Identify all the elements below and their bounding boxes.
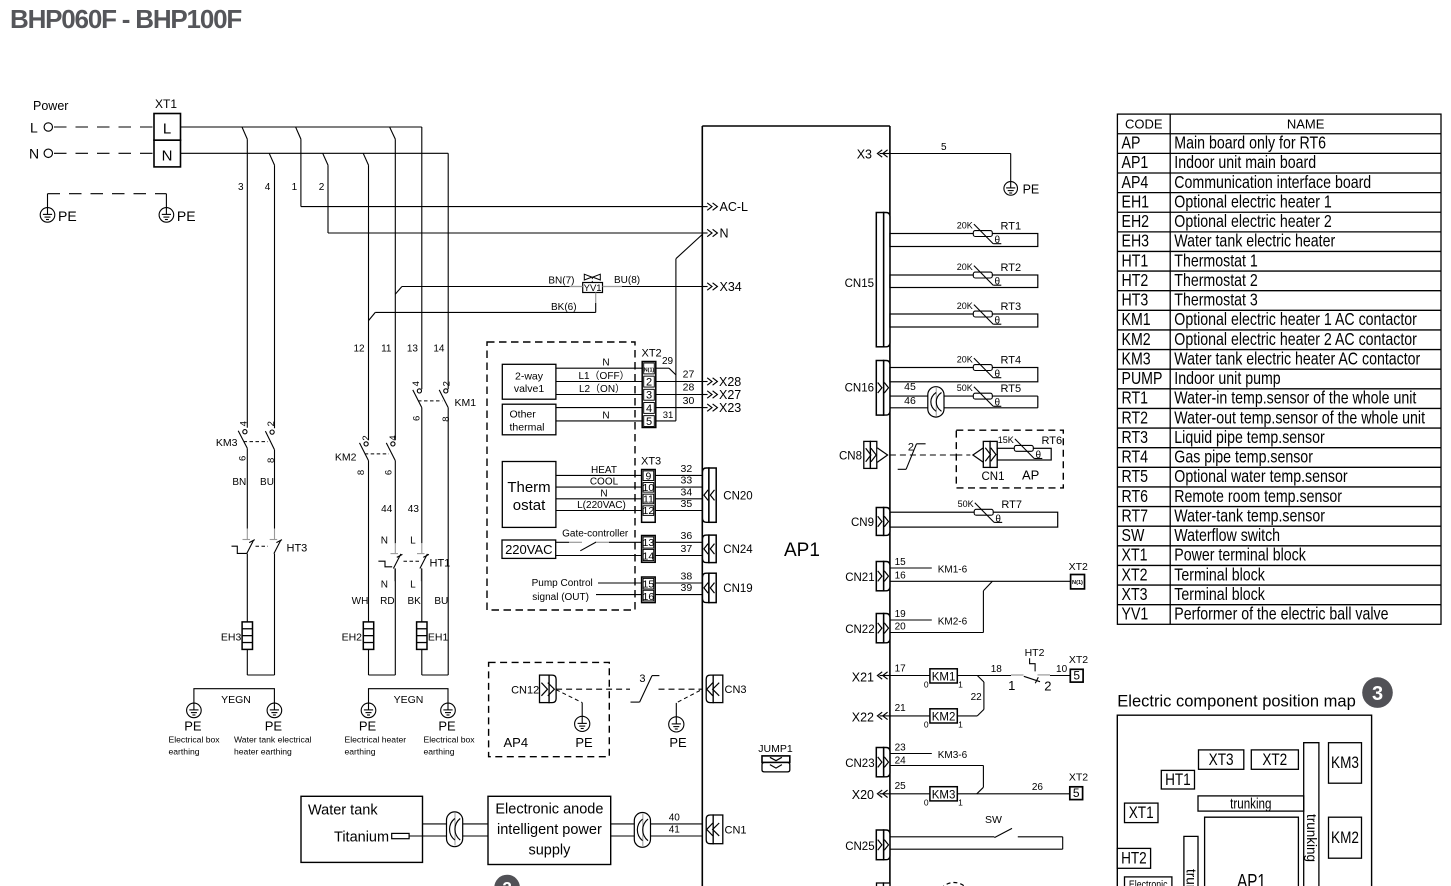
wire 12 below KM2 [368, 461, 370, 622]
arrow X27 [702, 391, 717, 398]
svg-text:XT3: XT3 [1121, 584, 1147, 604]
svg-text:13: 13 [643, 537, 655, 549]
svg-text:Water tank: Water tank [308, 802, 378, 818]
svg-text:N: N [381, 535, 388, 546]
marker circle 3 [1362, 677, 1393, 708]
map box trunking horizontal [1198, 796, 1304, 811]
table CODE/NAME frame and header [1117, 114, 1441, 624]
svg-text:RT2: RT2 [1121, 408, 1148, 428]
svg-text:36: 36 [681, 530, 693, 542]
svg-text:PE: PE [265, 719, 283, 734]
svg-text:35: 35 [681, 498, 693, 510]
svg-text:26: 26 [1032, 782, 1044, 793]
map box Electronic [1125, 877, 1172, 886]
svg-text:N: N [600, 488, 607, 499]
box Thermostat [502, 462, 556, 528]
wire dashed L to XT1 [54, 126, 154, 128]
svg-text:HT2: HT2 [1121, 849, 1147, 868]
svg-text:ostat: ostat [513, 497, 546, 514]
wire 25 [890, 793, 930, 795]
switch disconnect 3 [631, 673, 660, 702]
svg-text:5: 5 [646, 416, 652, 428]
svg-text:AP4: AP4 [1121, 172, 1148, 192]
wire 20 [890, 632, 984, 634]
svg-text:RT4: RT4 [1001, 354, 1022, 366]
svg-text:L: L [163, 121, 171, 138]
svg-text:16: 16 [895, 570, 907, 581]
thermistor RT4 [957, 354, 1021, 380]
svg-text:11: 11 [381, 344, 392, 355]
svg-text:Indoor unit pump: Indoor unit pump [1174, 369, 1280, 389]
svg-text:SW: SW [985, 814, 1002, 826]
wire 16 to XT2 [890, 580, 1071, 582]
svg-text:BK: BK [408, 596, 422, 607]
arrow X20 [877, 790, 890, 797]
svg-text:EH2: EH2 [342, 632, 363, 644]
wire N to XT2 5 [656, 420, 676, 422]
svg-text:WH: WH [352, 596, 369, 607]
svg-text:Water-in temp.sensor of the wh: Water-in temp.sensor of the whole unit [1174, 388, 1416, 408]
svg-text:KM1: KM1 [455, 397, 477, 409]
wire 11 below HT1 [394, 569, 396, 676]
map box KM3 [1329, 743, 1362, 784]
wire EH2 loop [368, 649, 370, 675]
svg-text:40: 40 [669, 812, 681, 823]
svg-text:AC-L: AC-L [720, 200, 749, 214]
connector CN3 [706, 675, 746, 703]
svg-text:X23: X23 [719, 401, 741, 415]
wire other thermal N [556, 420, 642, 422]
svg-text:HT3: HT3 [287, 543, 308, 555]
wire 33 [655, 486, 703, 488]
connector CN1 AP [956, 441, 1004, 482]
wire 11 [394, 139, 396, 440]
coil KM1 [930, 669, 957, 683]
svg-text:44: 44 [381, 504, 393, 515]
svg-text:2: 2 [319, 182, 325, 193]
svg-text:Pump Control: Pump Control [532, 578, 593, 589]
map box trunking vertical 2 [1184, 836, 1198, 886]
wire 17 [890, 675, 930, 677]
svg-text:Thermostat 2: Thermostat 2 [1174, 270, 1257, 290]
svg-text:HT1: HT1 [1165, 771, 1191, 790]
svg-text:KM2: KM2 [1121, 329, 1150, 349]
svg-text:RT5: RT5 [1121, 467, 1148, 487]
svg-text:2: 2 [646, 376, 652, 388]
svg-text:PE: PE [177, 208, 196, 224]
svg-text:RT2: RT2 [1001, 262, 1022, 274]
svg-text:RT7: RT7 [1001, 499, 1022, 511]
wire 2 [327, 165, 329, 233]
svg-text:CN1: CN1 [725, 824, 747, 836]
svg-text:Indoor unit main board: Indoor unit main board [1174, 153, 1316, 173]
wire 15 KM1-6 [890, 567, 932, 569]
svg-text:14: 14 [643, 551, 655, 563]
svg-text:L: L [410, 535, 416, 546]
svg-text:Optional water temp.sensor: Optional water temp.sensor [1174, 467, 1348, 487]
svg-text:XT2: XT2 [642, 348, 662, 360]
svg-text:YEGN: YEGN [221, 694, 251, 706]
arrow N [702, 229, 717, 236]
wire 18 [957, 675, 1011, 677]
wire 14 below KM1 [447, 408, 449, 675]
svg-text:L(220VAC): L(220VAC) [577, 500, 626, 511]
svg-text:CN9: CN9 [851, 517, 874, 529]
svg-text:CN3: CN3 [725, 684, 747, 696]
svg-text:YEGN: YEGN [394, 694, 424, 706]
svg-text:37: 37 [681, 543, 693, 555]
map box XT3 [1199, 750, 1244, 769]
svg-text:AP1: AP1 [1237, 870, 1266, 886]
svg-text:5: 5 [941, 142, 947, 153]
thermistor RT6 [998, 435, 1062, 461]
svg-text:XT3: XT3 [641, 455, 661, 467]
wire N to XT2 N1 [656, 367, 669, 369]
heater EH2 [363, 622, 373, 650]
ferrite bead RT5 [928, 387, 944, 417]
marker circle 2 [494, 875, 520, 886]
svg-text:CN23: CN23 [845, 758, 874, 770]
contactor KM1 [411, 381, 476, 422]
svg-text:Water-out temp.sensor of the w: Water-out temp.sensor of the whole unit [1174, 408, 1425, 428]
wire 37 [655, 555, 703, 557]
svg-text:EH2: EH2 [1121, 212, 1149, 232]
wire 13 below KM1 [421, 408, 423, 544]
svg-text:CN25: CN25 [845, 841, 874, 853]
wire 12 [368, 165, 370, 440]
svg-text:θ: θ [995, 398, 1001, 409]
svg-text:Liquid pipe temp.sensor: Liquid pipe temp.sensor [1174, 427, 1325, 447]
svg-text:Remote room temp.sensor: Remote room temp.sensor [1174, 486, 1342, 506]
svg-text:28: 28 [683, 382, 695, 394]
svg-text:4: 4 [388, 435, 399, 440]
svg-text:BN: BN [232, 477, 246, 488]
wire N thermostat [556, 498, 642, 500]
svg-text:1: 1 [292, 182, 298, 193]
wire 13 below HT1 [421, 569, 423, 622]
svg-text:NAME: NAME [1287, 117, 1325, 132]
wire 3 below HT3 [246, 554, 248, 622]
svg-text:Electrical box: Electrical box [169, 735, 221, 745]
thermostat HT1 [378, 543, 450, 581]
ground PE CN3 [669, 717, 684, 732]
connector CN16 [876, 361, 890, 416]
svg-text:trunking: trunking [1230, 795, 1271, 812]
wire 14 [447, 153, 449, 389]
svg-text:Water-tank temp.sensor: Water-tank temp.sensor [1174, 506, 1325, 526]
svg-text:50K: 50K [958, 499, 974, 509]
svg-text:6: 6 [411, 416, 422, 421]
ferrite bead tank [447, 812, 463, 847]
svg-text:CN16: CN16 [845, 383, 874, 395]
svg-text:2-way: 2-way [515, 370, 544, 382]
svg-text:L2（ON）: L2（ON） [579, 383, 625, 395]
svg-text:25: 25 [895, 781, 907, 792]
svg-text:KM3: KM3 [1121, 349, 1150, 369]
svg-text:2: 2 [1044, 678, 1051, 693]
svg-text:Titanium: Titanium [334, 830, 389, 846]
wire valve N [556, 367, 642, 369]
svg-text:39: 39 [681, 582, 693, 594]
svg-text:19: 19 [895, 609, 907, 620]
svg-text:Performer of the electric ball: Performer of the electric ball valve [1174, 604, 1388, 624]
wire 34 [655, 498, 703, 500]
svg-text:3: 3 [1372, 683, 1383, 705]
svg-text:43: 43 [408, 504, 420, 515]
svg-text:Waterflow switch: Waterflow switch [1174, 526, 1280, 546]
terminal block XT2 [642, 348, 662, 429]
svg-text:X34: X34 [720, 280, 742, 294]
svg-text:4: 4 [265, 182, 271, 193]
svg-text:signal (OUT): signal (OUT) [532, 592, 589, 603]
svg-text:Power: Power [33, 99, 68, 113]
svg-text:JUMP1: JUMP1 [758, 743, 793, 755]
wire 21 [890, 715, 930, 717]
heater EH1 [417, 622, 427, 650]
wire 3 below KM3 [246, 448, 248, 528]
svg-text:AP: AP [1121, 133, 1140, 153]
wire 35 [655, 510, 703, 512]
wire dashed PE bus [48, 193, 167, 195]
svg-text:N(1): N(1) [644, 367, 655, 373]
dashed box control section [487, 342, 635, 610]
jumper JUMP1 [758, 743, 793, 772]
svg-text:N: N [720, 226, 729, 240]
wire dashed CN3 PE [676, 691, 700, 703]
map box HT2 [1117, 848, 1150, 868]
svg-text:KM3: KM3 [216, 437, 238, 449]
ground PE electrical box [187, 703, 202, 718]
arrow X3 [877, 150, 890, 157]
connector CN15 [876, 213, 890, 347]
wire branch 24 to KM3 [982, 766, 984, 788]
wire RT5 end [1037, 396, 1039, 408]
svg-text:17: 17 [895, 664, 907, 675]
svg-text:34: 34 [681, 486, 693, 498]
svg-text:Electric component position ma: Electric component position map [1117, 693, 1355, 711]
ground PE AP4 [575, 716, 590, 731]
svg-text:RT3: RT3 [1121, 427, 1148, 447]
wire L 220VAC [556, 510, 642, 512]
svg-text:CN8: CN8 [839, 451, 862, 463]
wire dashed CN12 to CN3 [556, 688, 630, 690]
svg-text:BK(6): BK(6) [551, 302, 577, 313]
svg-text:1: 1 [1008, 678, 1015, 693]
wire 11 below KM2 [394, 461, 396, 544]
wire 19 KM2-6 [890, 619, 932, 621]
wire 32 [655, 474, 703, 476]
svg-text:38: 38 [681, 571, 693, 583]
wire 24 [890, 765, 984, 767]
wire tank bottom [409, 835, 488, 837]
wire 28 X27 [656, 394, 703, 396]
svg-text:5: 5 [1073, 786, 1080, 800]
wire dashed N to XT1 [54, 152, 154, 154]
svg-text:CN24: CN24 [723, 544, 753, 556]
svg-text:15: 15 [643, 578, 655, 590]
connector CN20 [703, 468, 717, 522]
svg-text:PE: PE [669, 735, 687, 750]
dashed box AP4 [489, 662, 610, 756]
svg-text:intelligent power: intelligent power [497, 822, 602, 838]
svg-text:15K: 15K [998, 435, 1014, 445]
arrow X34 [702, 283, 717, 290]
connector CN9 [876, 508, 890, 536]
svg-text:33: 33 [681, 475, 693, 487]
svg-text:CN21: CN21 [845, 572, 874, 584]
connector CN12 [511, 675, 556, 703]
connector CN19 [703, 573, 717, 602]
svg-text:11: 11 [643, 494, 654, 506]
svg-text:θ: θ [995, 277, 1001, 288]
wire 36 [655, 541, 703, 543]
svg-text:23: 23 [895, 742, 907, 753]
wire 45 [890, 395, 1038, 397]
svg-text:KM2: KM2 [335, 452, 357, 464]
connector CN1 [706, 815, 746, 844]
svg-text:θ: θ [995, 316, 1001, 327]
svg-text:CN15: CN15 [845, 278, 874, 290]
ground PE electrical heater [361, 703, 376, 718]
svg-text:Optional electric heater 2 AC: Optional electric heater 2 AC contactor [1174, 329, 1417, 349]
svg-text:27: 27 [683, 368, 695, 380]
wire other thermal 4 [556, 407, 642, 409]
svg-text:valve1: valve1 [514, 383, 545, 395]
svg-text:N: N [29, 146, 39, 162]
wire jog L to 11 [390, 127, 396, 139]
svg-text:Optional electric heater 2: Optional electric heater 2 [1174, 212, 1332, 232]
svg-text:RT5: RT5 [1001, 383, 1022, 395]
svg-text:0: 0 [924, 720, 929, 730]
terminal block XT2 13-14 [642, 536, 656, 563]
svg-text:32: 32 [681, 463, 693, 475]
svg-text:RT3: RT3 [1001, 301, 1022, 313]
svg-text:Optional electric heater 1: Optional electric heater 1 [1174, 192, 1332, 212]
svg-text:θ: θ [1036, 450, 1042, 461]
svg-text:46: 46 [904, 395, 916, 407]
svg-text:KM1: KM1 [1121, 310, 1150, 330]
svg-text:6: 6 [384, 470, 395, 475]
svg-text:14: 14 [433, 344, 445, 355]
svg-text:24: 24 [895, 755, 907, 766]
svg-text:3: 3 [646, 390, 652, 402]
svg-text:HEAT: HEAT [591, 465, 617, 476]
svg-text:X21: X21 [852, 670, 874, 684]
svg-text:supply: supply [528, 843, 571, 859]
wire EH3 loop [246, 649, 248, 675]
svg-text:L1（OFF）: L1（OFF） [578, 370, 629, 382]
svg-text:AP4: AP4 [504, 735, 529, 750]
sensor loop RT7 [890, 512, 1058, 527]
svg-text:YV1: YV1 [1121, 604, 1148, 624]
svg-text:RT6: RT6 [1042, 435, 1063, 447]
svg-text:1: 1 [958, 680, 963, 690]
svg-text:BHP060F - BHP100F: BHP060F - BHP100F [10, 4, 241, 34]
svg-text:2: 2 [441, 381, 452, 386]
wire 4 below HT3 [274, 554, 276, 675]
svg-text:Water tank electric heater AC: Water tank electric heater AC contactor [1174, 349, 1420, 369]
waterflow switch SW [890, 814, 1063, 849]
svg-text:XT2: XT2 [1069, 561, 1088, 573]
ferrite bead anode [634, 813, 650, 848]
wire KM2 out [957, 715, 977, 717]
map box AP1 [1205, 817, 1299, 886]
svg-text:15: 15 [895, 557, 907, 568]
wire jog L to 3 [242, 127, 247, 139]
svg-text:9: 9 [645, 470, 651, 482]
wire 41 [611, 835, 703, 837]
svg-text:2: 2 [908, 442, 914, 454]
wire branch 16 to 20 [983, 581, 992, 591]
svg-text:trunking: trunking [1304, 814, 1319, 862]
svg-text:N: N [602, 358, 609, 369]
map box XT2 [1251, 750, 1298, 769]
connector CN21 [876, 562, 890, 591]
wire dashed CN8 to AP [890, 454, 956, 456]
svg-text:31: 31 [663, 410, 674, 421]
wire 27 X28 [656, 381, 703, 383]
svg-text:X3: X3 [857, 147, 872, 161]
wire 26 to XT2 [957, 793, 1070, 795]
svg-text:20K: 20K [957, 262, 973, 272]
wire YV1 to X34 [622, 286, 703, 288]
wire 23 KM3-6 [890, 753, 932, 755]
connector CN24 [703, 535, 717, 563]
connector CN8 [839, 441, 888, 468]
svg-text:AP1: AP1 [1121, 153, 1148, 173]
svg-text:3: 3 [238, 182, 244, 193]
ground PE water tank heater [267, 703, 282, 718]
thermistor RT7 [958, 499, 1022, 525]
sensor loop RT1 [890, 234, 1038, 247]
wire PE bracket 2 [369, 689, 449, 704]
svg-text:22: 22 [971, 692, 983, 703]
svg-text:Main board only for RT6: Main board only for RT6 [1174, 133, 1326, 153]
svg-text:13: 13 [407, 344, 419, 355]
svg-text:KM3: KM3 [932, 789, 956, 801]
thermistor RT3 [957, 301, 1021, 327]
position map outline [1117, 715, 1371, 886]
svg-text:N: N [381, 580, 388, 591]
svg-text:RT7: RT7 [1121, 506, 1148, 526]
wire pump 15 [598, 582, 642, 584]
svg-text:41: 41 [669, 825, 681, 836]
svg-text:XT2: XT2 [1262, 751, 1287, 770]
wire tank top [423, 823, 489, 825]
box Electronic anode [488, 796, 611, 864]
svg-text:RD: RD [380, 596, 394, 607]
svg-text:20K: 20K [957, 354, 973, 364]
svg-text:X20: X20 [852, 788, 874, 802]
coil KM2 [930, 709, 957, 723]
wire 40 [611, 823, 703, 825]
wire 13 [421, 127, 423, 389]
svg-text:0: 0 [924, 797, 929, 807]
svg-text:Terminal block: Terminal block [1174, 565, 1265, 585]
svg-text:PE: PE [438, 719, 456, 734]
ground PE left [40, 208, 55, 223]
svg-text:Optional electric heater 1 AC: Optional electric heater 1 AC contactor [1174, 310, 1417, 330]
wire HEAT [556, 474, 642, 476]
ground PE X3 [1004, 182, 1018, 196]
ground PE right [159, 208, 174, 223]
svg-text:Power terminal block: Power terminal block [1174, 545, 1306, 565]
svg-text:20K: 20K [957, 220, 973, 230]
svg-text:BU(8): BU(8) [614, 275, 640, 286]
svg-text:Electrical box: Electrical box [424, 735, 476, 745]
svg-text:L: L [410, 580, 416, 591]
switch disconnect 2 [898, 442, 926, 470]
